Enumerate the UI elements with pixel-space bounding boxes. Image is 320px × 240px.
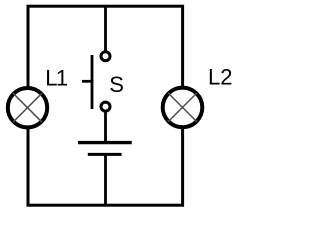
battery long plate [78,141,132,144]
wire battery to bottom [104,154,107,205]
svg-text:L2: L2 [208,64,232,89]
wire middle branch top [104,6,107,51]
battery [78,143,132,155]
wire switch to battery [104,112,107,143]
switch S [82,52,110,111]
switch terminal circle top [101,52,110,61]
switch terminal circle bottom [101,102,110,111]
svg-text:L1: L1 [45,65,68,90]
lamp L2 [163,88,203,128]
switch actuator tick [82,80,93,83]
switch lever bar [91,55,94,109]
svg-text:S: S [109,72,124,97]
wire outer loop [28,6,183,205]
lamp L1 [8,88,47,127]
battery short plate [88,153,122,156]
